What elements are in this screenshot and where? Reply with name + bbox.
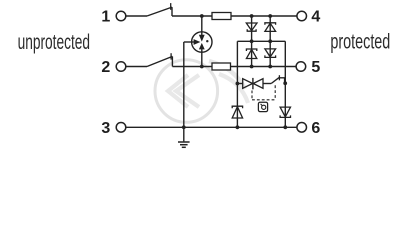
svg-text:protected: protected — [330, 31, 390, 54]
svg-text:2: 2 — [101, 59, 110, 76]
svg-text:5: 5 — [311, 59, 320, 76]
svg-text:unprotected: unprotected — [18, 31, 90, 54]
svg-text:4: 4 — [311, 9, 320, 26]
svg-text:1: 1 — [101, 9, 110, 26]
svg-text:6: 6 — [311, 120, 320, 137]
svg-text:3: 3 — [101, 120, 110, 137]
